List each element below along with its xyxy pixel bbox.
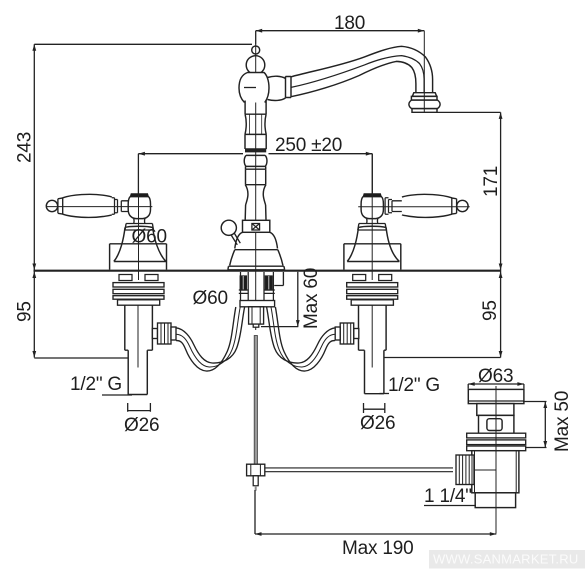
svg-text:WWW.SANMARKET.RU: WWW.SANMARKET.RU (433, 552, 579, 567)
centre connector cylinder (249, 307, 264, 324)
spout body bulge (239, 73, 269, 103)
left valve shank (125, 305, 153, 350)
knurled nut (456, 455, 474, 485)
dimension 171 / 95 right (384, 112, 503, 357)
drain flange (468, 389, 524, 403)
right handle ball tip (457, 200, 468, 211)
drain neck (477, 404, 514, 416)
Max 50 dim (523, 402, 547, 448)
1/2 G right leader (380, 393, 390, 395)
column ring 2 (246, 166, 266, 169)
column bell skirt (228, 266, 285, 270)
right handle axis (358, 206, 470, 208)
right valve thread tube (365, 350, 384, 394)
column segment D (246, 169, 266, 185)
dimension 250 +-20 (138, 152, 372, 195)
column centerline (255, 45, 257, 331)
collar square detail (252, 224, 260, 231)
right handle collar (452, 198, 457, 215)
right valve lock nut (351, 300, 393, 305)
right valve below deck: stud nuts (353, 275, 392, 281)
right valve shank (359, 305, 387, 350)
svg-text:Max 190: Max 190 (342, 538, 413, 559)
Ø26 left bracket (128, 403, 151, 412)
column ball segment (244, 155, 267, 166)
svg-text:1 1/4": 1 1/4" (424, 486, 472, 507)
drain washers (467, 433, 526, 451)
svg-text:250 ±20: 250 ±20 (275, 135, 342, 156)
left valve thread tube (128, 350, 147, 394)
right handle ball joint (361, 197, 383, 219)
left hose (176, 307, 245, 371)
left valve lock nut (118, 300, 160, 305)
left handle ball joint (128, 197, 150, 219)
spout connector ring (286, 76, 292, 98)
centre stud washers (239, 290, 275, 293)
column dark ring (245, 150, 266, 152)
dimension 95 left (32, 272, 128, 359)
Ø26 right bracket (364, 403, 385, 413)
left handle ball tip (46, 200, 57, 211)
pop-up rod (254, 336, 257, 466)
left valve centerline below (137, 305, 139, 368)
svg-text:243: 243 (15, 132, 36, 163)
right hose (267, 307, 336, 371)
left valve bell (114, 226, 166, 261)
column waist E (245, 185, 266, 205)
drain centerline (495, 386, 497, 534)
right handle lever body (402, 194, 452, 217)
1 1/4 leader (424, 505, 476, 507)
centre studs below deck (240, 272, 273, 301)
outlet centerline (423, 31, 425, 113)
right valve centerline below (371, 305, 373, 368)
svg-text:Max 60: Max 60 (301, 268, 322, 329)
left hose connector (152, 323, 176, 344)
left valve washer stack (113, 283, 164, 300)
spout connector barrel (268, 76, 286, 100)
svg-text:1/2" G: 1/2" G (70, 374, 122, 395)
column lower tube (245, 205, 266, 220)
column bell tier2 (229, 250, 285, 267)
column collar block (243, 220, 270, 232)
right handle stem below (367, 219, 378, 224)
svg-text:180: 180 (334, 13, 365, 34)
right valve washer stack (347, 283, 398, 300)
svg-text:Ø26: Ø26 (360, 413, 395, 434)
column bell tier1 (235, 232, 278, 249)
right handle ball dark cap (363, 193, 382, 196)
spout column ball (246, 56, 265, 75)
1/2 G left leader (102, 394, 132, 396)
spout tube (291, 46, 433, 92)
centre connector nub (253, 324, 259, 327)
svg-text:Max 50: Max 50 (552, 391, 573, 452)
drain tailpipe (475, 493, 515, 508)
dimension 180 line (256, 29, 425, 45)
rod stub below clamp (253, 476, 258, 486)
drain Ø63 dim line (468, 384, 524, 389)
svg-text:1/2" G: 1/2" G (388, 375, 440, 396)
centre step-out plate right (274, 272, 283, 286)
left valve centerline (138, 154, 140, 280)
right valve bell (347, 226, 399, 261)
centre bracket bar (240, 301, 275, 307)
svg-text:171: 171 (481, 166, 502, 197)
left handle ball dark cap (130, 193, 149, 196)
horizontal rod (265, 468, 453, 472)
svg-text:95: 95 (15, 301, 36, 322)
drain body with square hole (479, 415, 514, 434)
Max 190 dim (255, 490, 496, 536)
svg-text:95: 95 (480, 300, 501, 321)
column segment A (245, 101, 266, 115)
left handle stem below (134, 219, 145, 224)
watermark bar (429, 550, 585, 569)
clamp block (247, 464, 265, 476)
svg-text:Ø60: Ø60 (193, 288, 228, 309)
right handle neck rings (385, 198, 392, 215)
left handle neck rings (112, 198, 122, 215)
pop-up lever knob (221, 220, 236, 235)
left handle flange (125, 224, 154, 231)
left handle axis line (47, 206, 152, 208)
right valve escutcheon rect (344, 244, 401, 270)
left valve below deck: stud nuts (119, 275, 158, 281)
left handle small cylinder (121, 201, 128, 212)
dimension Max 60 (261, 272, 300, 327)
spout column top ball small (252, 46, 260, 54)
left handle lever body (63, 194, 112, 217)
svg-text:Ø26: Ø26 (124, 415, 159, 436)
right hose connector (335, 323, 359, 344)
dimension 243 line left (32, 44, 252, 270)
right handle small cylinder (392, 201, 402, 212)
column segment C (245, 134, 266, 149)
right valve centerline (371, 154, 373, 280)
left valve escutcheon rect (110, 244, 167, 270)
drain lower body (472, 451, 519, 493)
column waist B (245, 114, 266, 134)
spout outlet flange (412, 93, 436, 97)
deck line (34, 270, 501, 272)
left handle collar (58, 198, 63, 215)
right handle flange (358, 224, 387, 231)
